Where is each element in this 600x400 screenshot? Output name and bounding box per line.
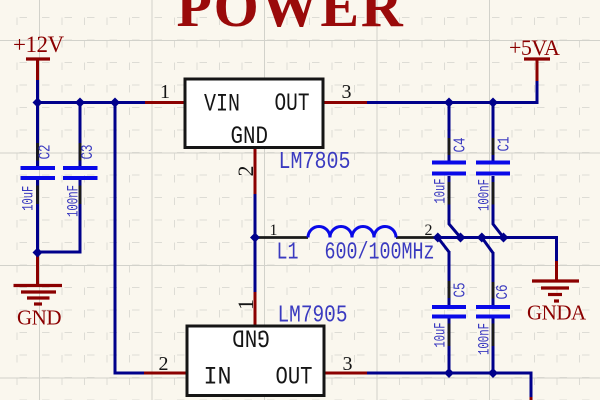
svg-text:GNDA: GNDA: [527, 301, 587, 325]
svg-text:1: 1: [270, 222, 278, 239]
wire C4 drop: [448, 103, 451, 162]
capacitor C1 leads: [492, 138, 495, 205]
junction node top C4: [444, 98, 454, 108]
wire red U2 pin2: [144, 372, 188, 375]
svg-text:C1: C1: [496, 137, 515, 152]
wire 7805 pin2 to mid bus: [254, 193, 257, 238]
svg-text:10uF: 10uF: [432, 179, 450, 204]
wire red U2 pin3: [323, 372, 367, 375]
svg-text:100nF: 100nF: [476, 323, 494, 355]
svg-text:C4: C4: [452, 138, 471, 153]
junction node gnd left: [33, 248, 43, 258]
wire red U1 pin1: [145, 101, 186, 104]
junction node bottom C5: [444, 368, 454, 378]
junction node top2: [75, 98, 85, 108]
capacitor C6 leads: [492, 282, 495, 346]
capacitor C5 plates: [432, 307, 466, 317]
power symbol +12V stem: [36, 59, 39, 81]
wire C2 lower: [36, 180, 39, 254]
power symbol +12V bar: [26, 57, 50, 60]
wire C5 lower: [448, 318, 451, 375]
ground GNDA symbol: [532, 281, 579, 301]
svg-text:C6: C6: [494, 285, 513, 300]
inductor L1 pin2 lead: [396, 236, 438, 239]
svg-text:C2: C2: [37, 145, 56, 160]
wire diagonal bus to C5: [438, 238, 449, 253]
power symbol +5VA bar: [524, 57, 550, 60]
svg-text:+5VA: +5VA: [509, 35, 560, 60]
wire red GNDA stem: [555, 261, 558, 281]
regulator U2 LM7905 body: [187, 326, 324, 396]
wire C3 lower: [38, 180, 81, 252]
wire red U1 pin3: [322, 101, 367, 104]
svg-text:3: 3: [343, 353, 353, 375]
power symbol +5VA stem: [536, 59, 539, 82]
junction node mid L1 pin1: [250, 233, 260, 243]
svg-text:L1: L1: [277, 240, 299, 267]
junction node mid C1: [499, 233, 509, 243]
inductor L1 coil: [308, 227, 396, 238]
wire diagonal C1 to bus: [493, 176, 504, 238]
wire mid bus: [438, 236, 557, 239]
regulator U1 LM7805 body: [185, 79, 323, 148]
wire C5 upper: [448, 251, 451, 305]
svg-text:LM7905: LM7905: [278, 303, 348, 330]
svg-text:LM7805: LM7805: [279, 149, 351, 176]
wire red U1 pin2: [254, 147, 257, 195]
wire C6 upper: [492, 252, 495, 305]
wire diagonal C4 to bus: [449, 176, 461, 238]
capacitor C3 leads: [79, 143, 82, 204]
svg-text:OUT: OUT: [276, 363, 313, 392]
wire red GND stem: [36, 253, 39, 285]
wire mid to 7905 pin1: [254, 238, 257, 294]
capacitor C4 plates: [432, 163, 466, 174]
svg-text:10uF: 10uF: [20, 186, 38, 211]
junction node mid C6: [477, 233, 487, 243]
wire to 7905 pin2: [115, 372, 146, 375]
svg-text:10uF: 10uF: [432, 323, 450, 348]
capacitor C2 plates: [21, 168, 56, 178]
capacitor C4 leads: [448, 138, 451, 205]
svg-text:100nF: 100nF: [476, 179, 494, 211]
junction node bottom C6: [488, 368, 498, 378]
junction node top C1: [488, 98, 498, 108]
wire top bus right: [366, 101, 537, 104]
wire C6 lower: [492, 318, 495, 375]
wire GNDA stem blue: [555, 236, 558, 262]
svg-text:600/100MHz: 600/100MHz: [325, 240, 435, 267]
svg-text:3: 3: [342, 81, 352, 103]
wire C2 drop: [36, 103, 39, 167]
wire C1 drop: [492, 103, 495, 162]
capacitor C3 plates: [63, 168, 98, 178]
wire +12V stem blue: [36, 80, 39, 104]
junction node top1: [33, 98, 43, 108]
svg-text:100nF: 100nF: [65, 185, 83, 217]
svg-text:2: 2: [233, 166, 258, 177]
junction node mid C4: [456, 233, 466, 243]
junction node mid L1 pin2: [433, 233, 443, 243]
svg-text:2: 2: [159, 353, 169, 375]
wire +5VA stem blue: [536, 81, 539, 104]
wire top bus left: [36, 101, 146, 104]
wire bottom bus: [366, 373, 531, 400]
capacitor C2 leads: [36, 143, 39, 204]
capacitor C6 plates: [476, 307, 510, 317]
svg-text:C3: C3: [79, 145, 98, 160]
svg-text:1: 1: [233, 299, 258, 310]
ground GND symbol: [14, 286, 63, 305]
svg-text:+12V: +12V: [13, 32, 64, 57]
svg-text:IN: IN: [204, 363, 232, 392]
wire C3 drop: [79, 103, 82, 167]
svg-text:C5: C5: [452, 283, 471, 298]
junction node top3: [110, 98, 120, 108]
svg-text:GND: GND: [17, 306, 61, 330]
inductor L1 pin1 lead: [255, 236, 308, 239]
svg-text:VIN: VIN: [204, 90, 240, 119]
svg-text:POWER: POWER: [176, 0, 404, 39]
svg-text:GND: GND: [232, 323, 270, 352]
capacitor C1 plates: [476, 163, 510, 174]
wire red stub bottom edge: [530, 397, 533, 400]
svg-text:2: 2: [425, 222, 433, 239]
wire red U2 pin1: [254, 292, 257, 327]
svg-text:OUT: OUT: [275, 89, 310, 118]
capacitor C5 leads: [448, 281, 451, 346]
svg-text:GND: GND: [231, 122, 269, 151]
wire diagonal bus to C6: [482, 238, 493, 254]
wire left long drop: [114, 103, 117, 375]
svg-text:1: 1: [160, 81, 170, 103]
